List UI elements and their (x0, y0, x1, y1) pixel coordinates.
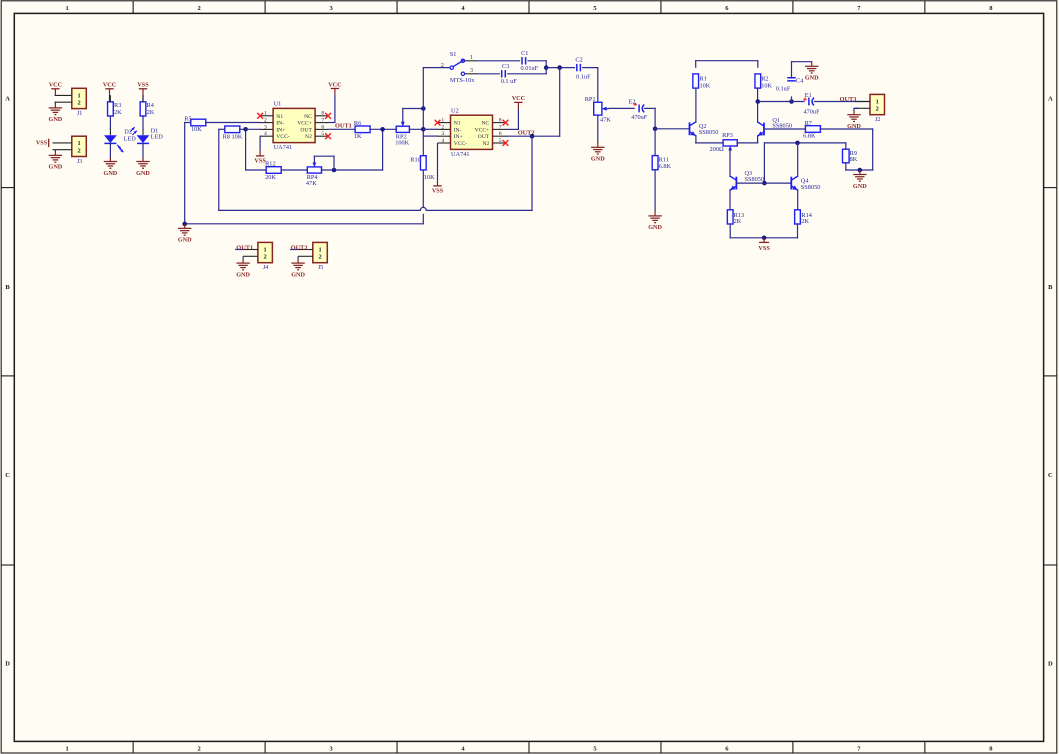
svg-text:GND: GND (49, 116, 63, 123)
svg-text:R7: R7 (805, 120, 812, 127)
svg-text:OUT: OUT (300, 127, 312, 133)
svg-text:5: 5 (321, 131, 324, 137)
svg-text:10K: 10K (424, 174, 435, 181)
svg-text:3: 3 (470, 68, 473, 74)
svg-text:J1: J1 (77, 111, 82, 117)
svg-text:GND: GND (648, 224, 662, 231)
svg-text:VSS: VSS (36, 140, 48, 147)
svg-text:GND: GND (104, 170, 118, 177)
svg-text:1: 1 (66, 5, 69, 12)
svg-text:E1: E1 (805, 92, 812, 99)
svg-text:1: 1 (264, 111, 267, 117)
svg-text:2: 2 (264, 254, 267, 261)
svg-text:47K: 47K (600, 116, 611, 123)
svg-text:LED: LED (124, 136, 137, 143)
svg-text:SS8050: SS8050 (745, 176, 765, 183)
svg-text:GND: GND (178, 237, 192, 244)
svg-text:7: 7 (321, 118, 324, 124)
svg-text:0.1uF: 0.1uF (576, 74, 591, 81)
svg-text:D: D (5, 660, 10, 667)
svg-text:3: 3 (441, 131, 444, 137)
svg-text:J4: J4 (263, 265, 268, 271)
svg-text:1: 1 (66, 745, 69, 752)
svg-text:6: 6 (321, 124, 324, 130)
svg-text:10K: 10K (191, 126, 202, 133)
svg-text:B: B (5, 284, 10, 291)
svg-text:2: 2 (318, 254, 321, 261)
svg-text:R1: R1 (700, 75, 707, 82)
svg-text:IN+: IN+ (454, 134, 463, 140)
svg-text:1: 1 (264, 246, 267, 253)
svg-text:470uF: 470uF (631, 114, 648, 121)
svg-text:2: 2 (441, 63, 444, 69)
svg-text:VCC: VCC (328, 81, 341, 88)
svg-text:GND: GND (291, 271, 305, 278)
svg-text:MTS-10x: MTS-10x (450, 77, 475, 84)
svg-text:2K: 2K (801, 218, 809, 225)
svg-text:U1: U1 (274, 101, 282, 108)
svg-text:100K: 100K (395, 140, 409, 147)
svg-text:N2: N2 (305, 134, 312, 140)
svg-text:N1: N1 (454, 121, 461, 127)
svg-text:5: 5 (499, 138, 502, 144)
svg-text:C2: C2 (575, 57, 582, 64)
svg-text:2K: 2K (147, 109, 155, 116)
svg-text:IN+: IN+ (276, 127, 285, 133)
svg-text:2: 2 (77, 100, 80, 107)
svg-text:SS8050: SS8050 (772, 122, 792, 129)
svg-text:SS8050: SS8050 (801, 184, 821, 191)
svg-text:VCC-: VCC- (454, 141, 468, 147)
svg-text:2: 2 (264, 118, 267, 124)
svg-text:NC: NC (482, 121, 490, 127)
svg-text:A: A (1048, 95, 1053, 102)
svg-text:VCC-: VCC- (276, 134, 290, 140)
svg-text:N1: N1 (276, 114, 283, 120)
svg-text:RP1: RP1 (585, 96, 596, 103)
svg-text:1: 1 (77, 140, 80, 147)
svg-text:GND: GND (853, 183, 867, 190)
svg-text:6.8K: 6.8K (659, 163, 672, 170)
svg-text:R8 10K: R8 10K (223, 133, 243, 140)
svg-text:C3: C3 (502, 63, 509, 70)
svg-text:VSS: VSS (137, 82, 149, 89)
svg-text:U2: U2 (451, 107, 459, 114)
svg-text:1: 1 (470, 55, 473, 61)
svg-text:470uF: 470uF (804, 109, 821, 116)
svg-text:OUT2: OUT2 (291, 244, 308, 251)
svg-text:LED: LED (151, 133, 164, 140)
svg-text:VCC: VCC (49, 82, 62, 89)
svg-text:VSS: VSS (758, 245, 770, 252)
svg-text:N2: N2 (482, 141, 489, 147)
svg-text:2: 2 (198, 745, 201, 752)
svg-text:2: 2 (198, 5, 201, 12)
svg-text:B: B (1048, 284, 1053, 291)
svg-text:GND: GND (236, 271, 250, 278)
svg-text:D2: D2 (124, 128, 132, 135)
svg-text:1: 1 (441, 118, 444, 124)
svg-text:20K: 20K (265, 174, 276, 181)
svg-text:10K: 10K (700, 83, 711, 90)
svg-text:GND: GND (805, 75, 819, 82)
svg-text:GND: GND (136, 170, 150, 177)
svg-text:NC: NC (304, 114, 312, 120)
svg-text:3: 3 (264, 124, 267, 130)
svg-text:VCC+: VCC+ (475, 127, 490, 133)
svg-text:J2: J2 (875, 117, 880, 123)
svg-text:D: D (1048, 660, 1053, 667)
svg-text:2: 2 (876, 106, 879, 113)
svg-text:2: 2 (441, 124, 444, 130)
svg-text:4: 4 (264, 131, 267, 137)
svg-text:1K: 1K (354, 133, 362, 140)
svg-text:VCC+: VCC+ (297, 121, 312, 127)
svg-text:8K: 8K (850, 156, 858, 163)
svg-text:SS8050: SS8050 (699, 129, 719, 136)
svg-text:4: 4 (441, 138, 444, 144)
svg-text:10K: 10K (761, 83, 772, 90)
svg-text:VCC: VCC (103, 82, 116, 89)
svg-text:1: 1 (77, 92, 80, 99)
svg-text:R10: R10 (410, 156, 421, 163)
svg-text:C4: C4 (796, 78, 804, 85)
svg-text:0.1 uF: 0.1 uF (501, 78, 518, 85)
svg-text:E2: E2 (629, 98, 636, 105)
svg-text:2K: 2K (734, 218, 742, 225)
svg-text:0.01uF: 0.01uF (521, 65, 539, 72)
svg-text:S1: S1 (450, 51, 457, 58)
svg-text:C: C (5, 472, 10, 479)
svg-text:1: 1 (318, 246, 321, 253)
svg-text:7: 7 (499, 124, 502, 130)
svg-text:UA741: UA741 (274, 144, 293, 151)
svg-text:0.1uF: 0.1uF (776, 85, 791, 92)
svg-text:OUT: OUT (478, 134, 490, 140)
svg-text:C: C (1048, 472, 1053, 479)
svg-text:VCC: VCC (512, 95, 525, 102)
svg-text:8: 8 (321, 111, 324, 117)
svg-text:OUT1: OUT1 (236, 244, 253, 251)
svg-text:IN-: IN- (454, 127, 462, 133)
svg-text:GND: GND (49, 164, 63, 171)
svg-text:J3: J3 (77, 159, 82, 165)
svg-text:2: 2 (77, 148, 80, 155)
svg-text:OUT1: OUT1 (335, 122, 352, 129)
svg-text:J5: J5 (318, 265, 323, 271)
svg-text:VSS: VSS (432, 187, 444, 194)
svg-text:2K: 2K (114, 109, 122, 116)
svg-text:R12: R12 (265, 160, 276, 167)
svg-text:200Ω: 200Ω (710, 146, 724, 153)
svg-text:RP3: RP3 (722, 132, 733, 139)
svg-text:GND: GND (591, 156, 605, 163)
svg-text:C1: C1 (521, 50, 528, 57)
svg-text:6: 6 (499, 131, 502, 137)
svg-text:IN-: IN- (276, 121, 284, 127)
svg-text:A: A (5, 95, 10, 102)
svg-text:R6: R6 (354, 120, 361, 127)
svg-text:UA741: UA741 (451, 151, 470, 158)
svg-text:1: 1 (876, 98, 879, 105)
svg-text:R5: R5 (184, 116, 191, 123)
svg-text:R2: R2 (761, 75, 768, 82)
svg-text:8: 8 (499, 118, 502, 124)
svg-text:47K: 47K (306, 180, 317, 187)
svg-text:6.8K: 6.8K (803, 133, 816, 140)
svg-text:OUT3: OUT3 (840, 96, 857, 103)
